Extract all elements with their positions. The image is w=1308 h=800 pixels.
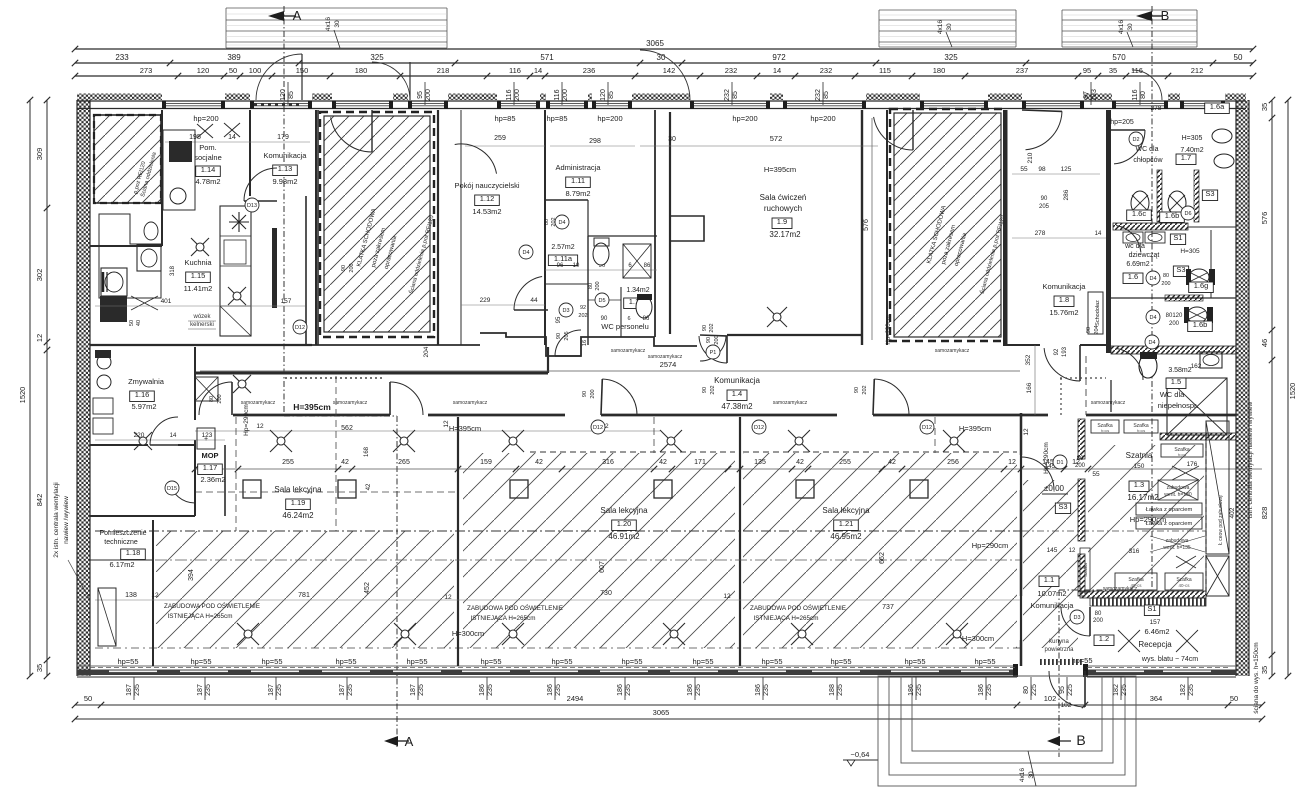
svg-text:D12: D12 [593,425,603,431]
svg-text:1520: 1520 [18,387,27,404]
svg-text:4.78m2: 4.78m2 [195,177,220,186]
svg-text:15.76m2: 15.76m2 [1049,308,1078,317]
svg-text:187: 187 [268,684,275,696]
svg-text:298: 298 [589,138,601,145]
hp=55 dashed sill line [90,667,1016,669]
svg-text:233: 233 [115,53,129,62]
svg-text:Ławka z oparciem: Ławka z oparciem [1146,507,1193,513]
svg-text:115: 115 [879,66,891,75]
fan sala cwiczen [767,307,787,327]
svg-text:hp=85: hp=85 [546,114,567,123]
wc cluster shower [623,244,651,278]
svg-text:WC personelu: WC personelu [601,322,649,331]
svg-text:6.17m2: 6.17m2 [109,560,134,569]
wall pom.socjalne right [161,110,163,246]
threshold dashes [1040,659,1082,665]
svg-text:samozamykacz: samozamykacz [1091,400,1126,406]
right overall dim 1520 [1287,100,1289,676]
svg-text:hp=55: hp=55 [904,657,925,666]
svg-text:1.14: 1.14 [201,165,216,174]
svg-text:96: 96 [557,263,564,269]
svg-text:H=395cm: H=395cm [959,424,991,433]
svg-text:H=395cm: H=395cm [764,165,796,174]
top wall door arc 3 [1132,70,1162,100]
stairwell 1 walls [315,110,317,345]
svg-text:samozamykacz: samozamykacz [333,400,368,406]
door komunikacja 1.13 top [256,54,302,100]
wc niepeln toilet [1139,354,1157,378]
svg-text:187: 187 [197,684,204,696]
door mop [169,482,195,504]
svg-text:2.57m2: 2.57m2 [551,244,574,251]
svg-text:55: 55 [1092,471,1100,478]
svg-text:Ł ceow pod zabudowę: Ł ceow pod zabudowę [1218,495,1224,545]
svg-text:H=305: H=305 [1182,135,1203,142]
svg-text:116: 116 [509,66,521,75]
door komunikacja 1.8 [1044,348,1080,381]
svg-text:14: 14 [170,433,177,439]
svg-text:40-cs: 40-cs [1130,583,1142,588]
svg-text:35: 35 [1109,66,1117,75]
svg-text:Komunikacja: Komunikacja [1043,282,1087,291]
svg-text:samozamykacz: samozamykacz [773,400,808,406]
svg-text:hp=55: hp=55 [261,657,282,666]
svg-text:35: 35 [1260,103,1269,111]
szafka box b [1124,420,1158,433]
svg-text:200: 200 [1161,281,1170,287]
svg-text:samozamykacz: samozamykacz [935,348,970,354]
svg-text:8.79m2: 8.79m2 [565,189,590,198]
svg-text:Pom.: Pom. [199,143,217,152]
wall kitchen bottom [90,344,312,346]
svg-text:259: 259 [494,135,506,142]
svg-text:95: 95 [1083,66,1091,75]
svg-text:186: 186 [978,684,985,696]
svg-text:30: 30 [334,20,341,28]
svg-text:571: 571 [540,53,554,62]
svg-text:1.19: 1.19 [291,498,306,507]
svg-text:202: 202 [710,385,716,394]
svg-text:h=cs: h=cs [1101,428,1110,433]
svg-text:116: 116 [1132,89,1139,100]
svg-text:Sala lekcyjna: Sala lekcyjna [274,485,322,494]
svg-text:828: 828 [1260,507,1269,520]
svg-text:50: 50 [129,320,135,326]
svg-text:200: 200 [217,394,223,403]
svg-text:hp=55: hp=55 [551,657,572,666]
S1 box recepcja [1144,605,1159,616]
svg-text:235: 235 [1188,684,1195,696]
wc niepeln south dark wall [1160,433,1236,440]
svg-text:2x istn. centrala wentylacji: 2x istn. centrala wentylacji [53,482,60,558]
svg-text:3.58m2: 3.58m2 [1168,367,1191,374]
svg-text:16.17m2: 16.17m2 [1127,493,1159,502]
svg-text:hp=85: hp=85 [494,114,515,123]
svg-text:6.69m2: 6.69m2 [1126,261,1149,268]
wc cluster walls [588,235,657,237]
left dim chain segments [46,100,48,676]
svg-text:1.6b: 1.6b [1165,211,1180,220]
sala cwiczen right wall [861,110,863,345]
corridor jog [547,347,549,373]
wall zmywalnia right [194,347,196,420]
dim 576 stairwell2 left [871,118,873,340]
svg-text:576: 576 [1260,212,1269,225]
svg-text:H=300cm: H=300cm [962,634,994,643]
wall wc stub 1 [1210,230,1212,298]
svg-text:30: 30 [946,23,953,31]
svg-text:157: 157 [1150,619,1161,626]
top wall door arc 2 [640,50,690,100]
svg-text:hp=55: hp=55 [830,657,851,666]
dimension chain total 3065 (top) [75,48,1253,50]
svg-text:116: 116 [554,89,561,100]
svg-text:D4: D4 [522,250,529,256]
svg-text:1.18: 1.18 [126,548,141,557]
dashed line cls d [934,417,936,453]
szatnia west dark wall [1078,419,1085,459]
svg-text:2494: 2494 [567,694,584,703]
svg-text:80: 80 [544,219,550,225]
svg-text:235: 235 [134,684,141,696]
svg-text:187: 187 [126,684,133,696]
wall nauczycielski right [544,110,546,345]
svg-text:200: 200 [595,281,601,290]
svg-text:150: 150 [1134,463,1145,470]
svg-text:187: 187 [410,684,417,696]
szafka box c [1161,444,1203,457]
svg-text:40-cs: 40-cs [1178,583,1190,588]
section line A jog [284,415,397,417]
wc toilet dziewczat [1189,269,1209,285]
wc cluster toilet2 [593,243,609,265]
svg-text:1.12: 1.12 [480,194,495,203]
svg-text:100: 100 [249,66,262,75]
svg-text:MOP: MOP [201,451,218,460]
svg-text:225: 225 [1031,684,1038,696]
svg-text:D4: D4 [1149,315,1156,321]
corridor north wall left part [195,372,548,375]
svg-text:3065: 3065 [653,708,670,717]
svg-text:842: 842 [35,494,44,507]
wc small box labels [1205,103,1230,114]
svg-text:90: 90 [702,387,708,393]
svg-text:80: 80 [209,396,215,402]
svg-text:1.6: 1.6 [1128,272,1138,281]
svg-text:D12: D12 [922,425,932,431]
floor hatch room 1.21 [743,453,1017,648]
svg-text:42: 42 [888,459,896,466]
svg-text:D12: D12 [754,425,764,431]
1.18 tall unit [98,588,116,646]
wall komunikacja 1.8 left [1003,110,1007,345]
svg-text:ściana do wys. h=150cm: ściana do wys. h=150cm [1253,642,1260,713]
svg-text:powietrzna: powietrzna [1044,647,1074,653]
svg-text:WC dla: WC dla [1160,390,1185,399]
svg-text:1.6c: 1.6c [1132,209,1146,218]
svg-text:202: 202 [578,313,587,319]
svg-text:1.6b: 1.6b [1193,320,1208,329]
wall mop right [224,445,226,516]
svg-text:chłopców: chłopców [1133,157,1163,164]
entrance door arc [1049,671,1085,707]
svg-text:Hp=290cm: Hp=290cm [972,541,1008,550]
wall administracja bottom [545,199,588,201]
svg-text:D1: D1 [1056,460,1063,466]
door zmywalnia [150,417,178,445]
svg-text:235: 235 [916,684,923,696]
svg-text:95: 95 [1059,686,1066,694]
top wall door arc 1 [372,62,410,100]
svg-text:1.4: 1.4 [732,389,742,398]
svg-text:D2: D2 [1132,137,1139,143]
svg-text:46.95m2: 46.95m2 [830,532,862,541]
svg-text:182: 182 [1113,684,1120,696]
mop shower [195,377,218,401]
svg-text:samozamykacz: samozamykacz [611,348,646,354]
svg-text:50: 50 [84,694,92,703]
ceiling fans upper row [270,430,292,452]
svg-text:samozamykacz: samozamykacz [453,400,488,406]
svg-text:85: 85 [288,91,295,99]
svg-text:210: 210 [1027,152,1034,163]
svg-text:ZABUDOWA POD OŚWIETLENIE: ZABUDOWA POD OŚWIETLENIE [467,603,563,612]
svg-text:237: 237 [1016,66,1029,75]
svg-text:46.24m2: 46.24m2 [282,511,314,520]
svg-text:186: 186 [755,684,762,696]
svg-text:9.98m2: 9.98m2 [272,177,297,186]
svg-text:hp=200: hp=200 [732,114,757,123]
bottom dim line 1 (50/2494/102/364/50) [75,704,1262,706]
svg-text:hp=200: hp=200 [597,114,622,123]
svg-text:ISTNIEJĄCA H=265cm: ISTNIEJĄCA H=265cm [471,615,536,622]
kitchen counter left [99,214,161,298]
svg-text:+: + [204,436,208,443]
svg-text:1.6a: 1.6a [1210,102,1225,111]
svg-text:186: 186 [479,684,486,696]
szafka row2 a [1115,573,1157,590]
svg-text:1.3: 1.3 [1134,480,1144,489]
svg-text:Pokój nauczycielski: Pokój nauczycielski [454,181,519,190]
wall top-zone bottom (corridor north) [90,344,480,346]
svg-text:229: 229 [480,297,491,304]
svg-text:40: 40 [136,320,142,326]
svg-text:wc dla: wc dla [1124,243,1145,250]
svg-text:572: 572 [770,134,783,143]
floor hatch room 1.20 [463,453,735,648]
svg-text:ZABUDOWA POD OŚWIETLENIE: ZABUDOWA POD OŚWIETLENIE [750,603,846,612]
svg-text:325: 325 [944,53,958,62]
svg-text:90: 90 [601,316,608,322]
dash-dot hp line mid [95,559,1020,561]
svg-text:235: 235 [555,684,562,696]
door label D3 [1070,610,1084,624]
svg-text:Komunikacja: Komunikacja [714,376,760,385]
kitchen dark stove [100,296,127,322]
floor hatch right zone B (szatnia) [1088,445,1204,590]
szatnia south dark wall [1080,591,1206,598]
wall komunikacja 1.13 right [317,110,319,345]
vent X hp200 [197,124,213,138]
svg-text:1.9: 1.9 [777,217,787,226]
svg-text:Szafka: Szafka [1083,563,1088,577]
svg-text:14: 14 [773,66,781,75]
svg-text:1.16: 1.16 [135,390,150,399]
svg-text:205: 205 [1039,204,1050,210]
svg-text:ZABUDOWA POD OŚWIETLENIE: ZABUDOWA POD OŚWIETLENIE [164,601,260,610]
door cls 1.21 [874,379,909,415]
recepcja X crosses [1118,630,1140,652]
svg-text:50: 50 [229,66,237,75]
svg-text:14: 14 [1095,231,1102,237]
wc niepeln sink [1200,352,1222,368]
svg-text:138: 138 [125,592,137,599]
door label D1 [1053,455,1067,469]
svg-text:200: 200 [514,89,521,101]
room komunikacja 1.1 [1039,576,1059,587]
svg-text:2.36m2: 2.36m2 [200,475,225,484]
svg-text:204: 204 [423,346,430,357]
stairwell 2 walls [886,110,888,345]
svg-text:1.8: 1.8 [1059,295,1069,304]
svg-text:86: 86 [643,316,650,322]
svg-text:14: 14 [228,134,236,141]
dashed line cls b [335,376,337,531]
svg-text:90: 90 [341,265,347,271]
exterior stair rect 2 [889,676,1125,775]
ramp top-left (4x16) [226,7,447,9]
svg-text:90: 90 [706,337,712,343]
schodolaz box [1088,292,1103,334]
outer wall top (windows band) [77,100,1246,102]
svg-text:went. h=135: went. h=135 [1163,545,1191,551]
firewall hatched box top-left (REI120) [94,115,161,203]
svg-text:55: 55 [1020,166,1028,173]
svg-text:316: 316 [1129,548,1140,555]
svg-text:35: 35 [1260,666,1269,674]
dashed line cls h [195,491,456,493]
svg-text:42: 42 [659,459,667,466]
svg-text:hp=55: hp=55 [406,657,427,666]
svg-text:hp=55: hp=55 [761,657,782,666]
svg-text:wózek: wózek [192,314,211,320]
svg-text:1.20: 1.20 [617,519,632,528]
svg-text:D12: D12 [295,325,305,331]
svg-text:S1: S1 [1147,604,1156,613]
left overall dim 1520 [29,100,31,676]
svg-text:B: B [1076,732,1085,748]
zabudowa went box [1158,480,1198,500]
svg-text:h=cs: h=cs [1137,428,1146,433]
svg-text:D15: D15 [167,486,177,492]
svg-text:11.41m2: 11.41m2 [184,284,213,293]
hatch boundary dashed 1.20 [530,451,735,453]
fan corridor [233,375,251,393]
svg-text:316: 316 [602,459,614,466]
svg-text:125: 125 [1061,166,1072,173]
svg-text:570: 570 [1112,53,1126,62]
svg-text:5.97m2: 5.97m2 [131,402,156,411]
svg-text:D4: D4 [558,220,565,226]
svg-text:235: 235 [347,684,354,696]
dimension chain row 3 (top) [75,75,1253,77]
door cls 1.19 [390,382,423,415]
svg-text:364: 364 [1150,694,1163,703]
svg-text:H=395cm: H=395cm [449,424,481,433]
svg-text:1.11: 1.11 [571,176,585,185]
svg-text:1.17: 1.17 [203,463,218,472]
wall 1.18 top [90,515,195,517]
svg-text:236: 236 [583,66,596,75]
wall 1.21/right zone [1020,413,1022,666]
svg-text:235: 235 [205,684,212,696]
door circles [1129,132,1143,146]
svg-text:42: 42 [796,459,804,466]
stairwell 2 hatched (KLATKA SCHODOWA) [894,113,1001,337]
svg-text:H=305: H=305 [1180,248,1200,255]
svg-text:hp=55: hp=55 [974,657,995,666]
corridor dim line [200,370,1020,372]
svg-text:232: 232 [820,66,833,75]
svg-text:180: 180 [355,66,368,75]
wall wc plumbing dark [1113,223,1188,230]
svg-text:hp=55: hp=55 [335,657,356,666]
door corridor top mid [700,336,726,361]
svg-text:12: 12 [1008,459,1016,466]
door wc dziewczat [1116,226,1141,253]
svg-text:14: 14 [534,66,542,75]
svg-text:50: 50 [1230,694,1238,703]
svg-text:hp=200: hp=200 [193,114,218,123]
door stairwell2 [874,117,913,150]
dimension chain row 2 (top) [75,62,1253,64]
svg-text:Szatnia: Szatnia [1126,451,1153,460]
svg-text:46: 46 [1260,339,1269,347]
szafka rot [1080,548,1090,592]
wall komunikacja 1.13 left [249,110,251,196]
svg-text:235: 235 [695,684,702,696]
exterior stair rect 3 [901,676,1113,763]
svg-text:1.5: 1.5 [1171,377,1181,386]
svg-text:193: 193 [1062,346,1068,357]
svg-text:212: 212 [1191,66,1204,75]
svg-text:145: 145 [1047,547,1058,554]
svg-text:kurtyna: kurtyna [1049,639,1069,645]
svg-text:202: 202 [862,385,868,394]
szatnia east line [1205,435,1207,596]
svg-text:90: 90 [582,391,588,397]
svg-text:1.11a: 1.11a [554,254,573,263]
1.18 inner wall stub [90,559,153,561]
svg-text:200: 200 [1093,618,1104,624]
svg-text:samozamykacz: samozamykacz [648,354,683,360]
svg-text:44: 44 [530,297,538,304]
szafka row2 b [1165,573,1203,590]
svg-text:12: 12 [35,334,44,342]
svg-text:6.46m2: 6.46m2 [1144,627,1169,636]
left annotation leader [68,560,90,600]
svg-text:235: 235 [487,684,494,696]
svg-text:wys. blatu − 74cm: wys. blatu − 74cm [1141,656,1198,663]
svg-text:ruchowych: ruchowych [764,204,802,213]
svg-text:10: 10 [573,263,580,269]
svg-text:socjalne: socjalne [194,153,222,162]
svg-text:D4: D4 [1148,340,1155,346]
svg-text:90: 90 [556,333,562,339]
recepcja counter hatched [1090,598,1206,606]
lawka z oparciem 2 [1136,517,1202,529]
svg-text:179: 179 [277,134,289,141]
